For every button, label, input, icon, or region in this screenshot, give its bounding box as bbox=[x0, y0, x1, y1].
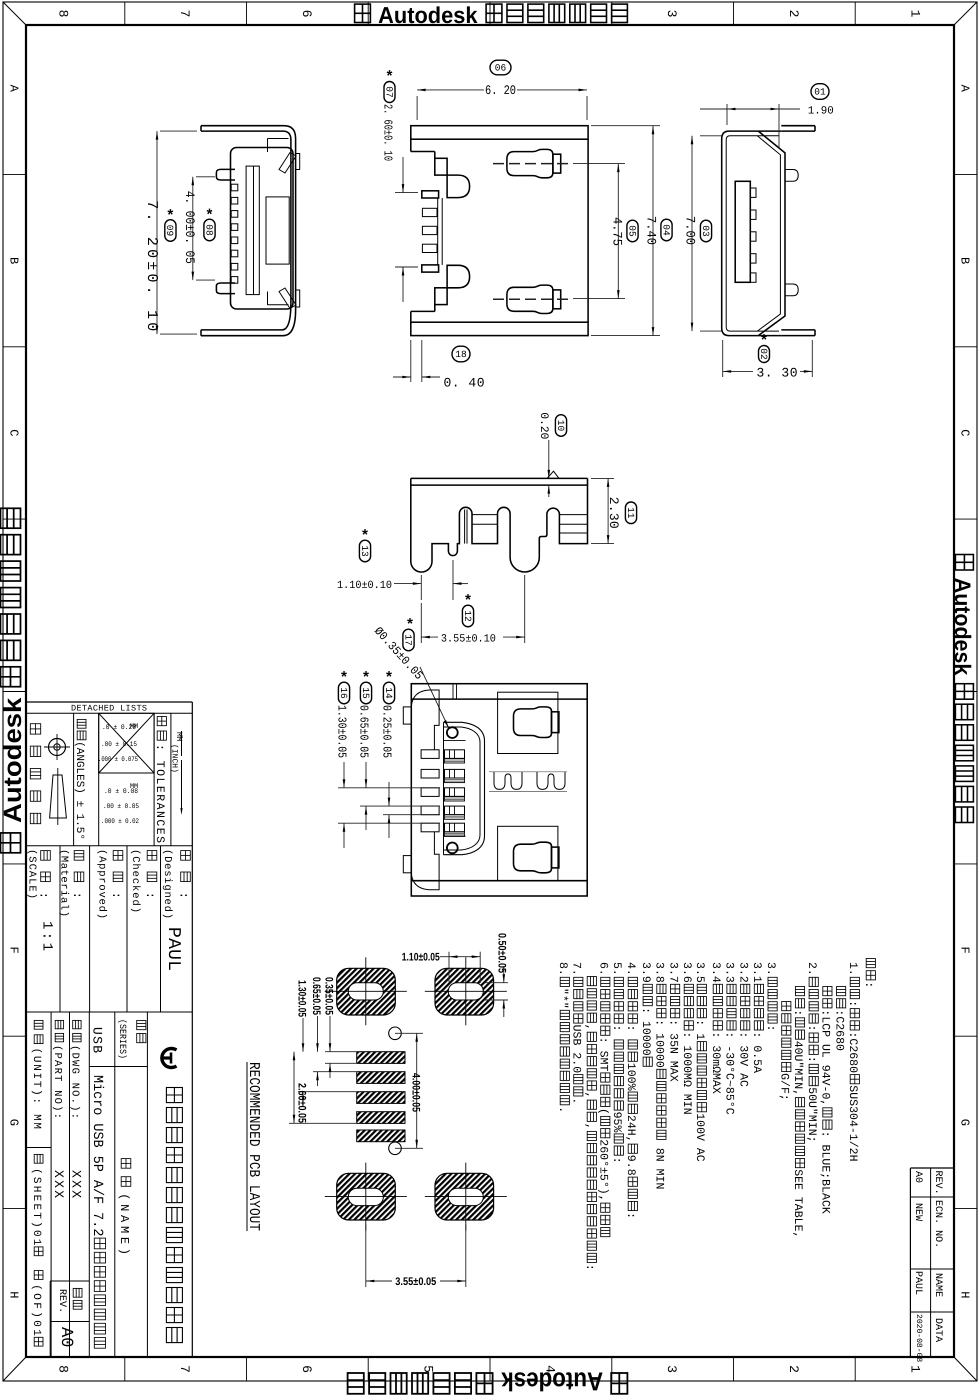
svg-text:XXX: XXX bbox=[51, 1170, 66, 1198]
svg-text:3.55±0.10: 3.55±0.10 bbox=[441, 633, 496, 645]
svg-text:G/F;: G/F; bbox=[778, 1073, 791, 1101]
svg-text:0.50±0.05: 0.50±0.05 bbox=[496, 933, 508, 973]
svg-text:1.90: 1.90 bbox=[808, 106, 834, 118]
svg-text:3.8: 3.8 bbox=[653, 962, 666, 983]
svg-text:ECN. NO.: ECN. NO. bbox=[932, 1200, 943, 1248]
svg-text:F: F bbox=[958, 947, 972, 954]
svg-text:(: ( bbox=[597, 1108, 610, 1115]
svg-text:*: * bbox=[339, 670, 348, 687]
svg-text:15: 15 bbox=[360, 687, 371, 699]
svg-text:A0: A0 bbox=[56, 1327, 75, 1348]
svg-text:*: * bbox=[360, 528, 369, 545]
svg-text:: 0.5A: : 0.5A bbox=[750, 1032, 763, 1074]
svg-text:0.35±0.05: 0.35±0.05 bbox=[323, 977, 335, 1015]
svg-text:(SERIES): (SERIES) bbox=[117, 1019, 128, 1059]
svg-text:Micro USB 5P A/F 7.2: Micro USB 5P A/F 7.2 bbox=[89, 1075, 105, 1236]
svg-text:USB 2.0: USB 2.0 bbox=[570, 1025, 583, 1074]
svg-text::: : bbox=[610, 1025, 623, 1039]
svg-text:(PART NO):: (PART NO): bbox=[51, 1045, 63, 1119]
svg-text::: : bbox=[37, 892, 51, 899]
svg-text:04: 04 bbox=[660, 224, 671, 236]
svg-text::: : bbox=[583, 1264, 596, 1271]
svg-text:3: 3 bbox=[664, 1365, 679, 1373]
svg-text:(INCH): (INCH) bbox=[170, 744, 179, 773]
svg-text:6: 6 bbox=[299, 1365, 314, 1373]
svg-text:Autodesk: Autodesk bbox=[373, 2, 484, 28]
svg-text:B: B bbox=[7, 257, 21, 264]
svg-text:XXX: XXX bbox=[69, 1170, 84, 1198]
svg-text:0.65±0.05: 0.65±0.05 bbox=[357, 705, 371, 758]
svg-text:7. 20±0. 10: 7. 20±0. 10 bbox=[143, 200, 160, 331]
svg-text:: -30°C~85°C: : -30°C~85°C bbox=[723, 1032, 736, 1115]
svg-text::: : bbox=[791, 1009, 804, 1016]
svg-text:08: 08 bbox=[203, 224, 214, 236]
svg-text:2.60±0.05: 2.60±0.05 bbox=[296, 1083, 308, 1123]
svg-text:1.10±0.10: 1.10±0.10 bbox=[337, 580, 392, 592]
svg-text:7.: 7. bbox=[570, 962, 583, 976]
svg-text:8N MIN: 8N MIN bbox=[653, 1141, 666, 1190]
svg-text:1.10±0.05: 1.10±0.05 bbox=[402, 951, 440, 963]
svg-text:,: , bbox=[583, 1024, 596, 1031]
svg-text:06: 06 bbox=[495, 63, 507, 74]
svg-text:09: 09 bbox=[164, 225, 175, 237]
svg-text:3. 30: 3. 30 bbox=[757, 365, 798, 380]
svg-text:: TOLERANCES: : TOLERANCES bbox=[153, 744, 166, 843]
svg-text:40U"MIN,: 40U"MIN, bbox=[791, 1041, 804, 1096]
svg-text::: : bbox=[862, 981, 875, 988]
svg-text:03: 03 bbox=[700, 225, 711, 237]
svg-text:02: 02 bbox=[758, 348, 769, 360]
svg-text:*: * bbox=[384, 670, 393, 687]
svg-text:NAME: NAME bbox=[932, 1273, 943, 1297]
svg-text:6. 20: 6. 20 bbox=[485, 83, 516, 98]
svg-text:Autodesk: Autodesk bbox=[0, 690, 27, 830]
svg-text:13: 13 bbox=[359, 545, 370, 557]
svg-text:.000 ± 0.075: .000 ± 0.075 bbox=[98, 756, 138, 764]
svg-text:2.: 2. bbox=[805, 962, 818, 976]
svg-text:F: F bbox=[7, 947, 21, 954]
svg-text:: SMT: : SMT bbox=[597, 1037, 610, 1072]
svg-text:6: 6 bbox=[299, 10, 314, 18]
svg-text:10: 10 bbox=[555, 420, 566, 432]
svg-text:8: 8 bbox=[55, 10, 70, 18]
svg-text:: 1000MΩ MIN: : 1000MΩ MIN bbox=[680, 1032, 693, 1115]
svg-text:8.: 8. bbox=[556, 962, 569, 976]
svg-text::: : bbox=[177, 892, 191, 899]
svg-text:100%: 100% bbox=[624, 1063, 637, 1091]
svg-text:B: B bbox=[958, 257, 972, 264]
svg-text:100V AC: 100V AC bbox=[693, 1113, 706, 1162]
svg-text:: 35N MAX: : 35N MAX bbox=[666, 1019, 679, 1081]
svg-text:4.00±0.05: 4.00±0.05 bbox=[410, 1073, 422, 1112]
svg-text:DETACHED LISTS: DETACHED LISTS bbox=[71, 704, 147, 714]
svg-text:(Checked): (Checked) bbox=[129, 849, 141, 913]
svg-text:3.1: 3.1 bbox=[750, 962, 763, 983]
svg-text:0.20: 0.20 bbox=[537, 412, 550, 439]
svg-text::: : bbox=[624, 1212, 637, 1219]
svg-text:SUS304-1/2H: SUS304-1/2H bbox=[846, 1085, 859, 1161]
svg-text::: : bbox=[70, 892, 84, 899]
svg-text:C: C bbox=[958, 429, 972, 436]
svg-text:7: 7 bbox=[177, 10, 192, 18]
svg-text:SEE TABLE,: SEE TABLE, bbox=[791, 1169, 804, 1238]
svg-text:(UNIT): MM: (UNIT): MM bbox=[30, 1048, 42, 1129]
svg-text:*: * bbox=[361, 670, 370, 687]
svg-text:1:1: 1:1 bbox=[39, 921, 55, 951]
svg-text::: : bbox=[805, 1025, 818, 1032]
svg-text::LCP UL 94V-0,: :LCP UL 94V-0, bbox=[819, 1009, 832, 1106]
svg-text:3.3: 3.3 bbox=[723, 962, 736, 983]
svg-text:4.: 4. bbox=[624, 962, 637, 976]
svg-text:5.: 5. bbox=[610, 962, 623, 976]
svg-text:*: * bbox=[166, 208, 175, 225]
svg-text:1.30±0.05: 1.30±0.05 bbox=[296, 980, 308, 1017]
svg-text:: 30V AC: : 30V AC bbox=[736, 1032, 749, 1087]
svg-text::: : bbox=[610, 1157, 623, 1164]
svg-text:01: 01 bbox=[814, 87, 826, 98]
svg-text:3.5: 3.5 bbox=[693, 962, 706, 983]
svg-text:11: 11 bbox=[625, 507, 636, 519]
svg-text:A: A bbox=[7, 85, 21, 93]
svg-text:3: 3 bbox=[664, 10, 679, 18]
svg-text:4. 00±0. 05: 4. 00±0. 05 bbox=[182, 191, 197, 264]
svg-text:3.55±0.05: 3.55±0.05 bbox=[395, 1276, 436, 1288]
svg-text:3.9: 3.9 bbox=[639, 962, 652, 983]
svg-text:: 10000: : 10000 bbox=[639, 1007, 652, 1056]
svg-text::: : bbox=[846, 1000, 859, 1007]
svg-text::: : bbox=[109, 892, 123, 899]
svg-text:18: 18 bbox=[455, 349, 467, 360]
svg-text:2020-08-08: 2020-08-08 bbox=[914, 1314, 923, 1362]
svg-text:.0 ± 0.20: .0 ± 0.20 bbox=[102, 724, 136, 732]
svg-text:USB: USB bbox=[90, 1027, 105, 1053]
svg-text:REV.: REV. bbox=[932, 1171, 943, 1195]
svg-text:,: , bbox=[583, 1123, 596, 1130]
svg-text:8: 8 bbox=[55, 1365, 70, 1373]
svg-text:(ANGLES) ± 1.5°: (ANGLES) ± 1.5° bbox=[73, 741, 85, 840]
svg-text:95%: 95% bbox=[610, 1112, 623, 1133]
svg-text:0.65±0.05: 0.65±0.05 bbox=[310, 977, 322, 1015]
svg-text:(Designed): (Designed) bbox=[161, 849, 173, 919]
svg-text:17: 17 bbox=[402, 634, 413, 645]
svg-text:3.6: 3.6 bbox=[680, 962, 693, 983]
svg-text:H: H bbox=[7, 1291, 21, 1298]
svg-text:DATA: DATA bbox=[932, 1318, 943, 1342]
svg-text:2.30: 2.30 bbox=[606, 497, 621, 529]
svg-text:Autodesk: Autodesk bbox=[950, 573, 975, 682]
svg-text::: : bbox=[624, 1025, 637, 1039]
svg-text:H: H bbox=[958, 1291, 972, 1298]
svg-text:1: 1 bbox=[908, 10, 923, 18]
svg-text:NEW: NEW bbox=[912, 1203, 923, 1221]
svg-text:PAUL: PAUL bbox=[163, 927, 183, 971]
svg-text:: BLUE;BLACK: : BLUE;BLACK bbox=[819, 1131, 832, 1214]
svg-text:3.4: 3.4 bbox=[709, 962, 722, 983]
svg-text:A: A bbox=[958, 85, 972, 93]
svg-text:50U"MIN;: 50U"MIN; bbox=[805, 1087, 818, 1142]
svg-text:0.25±0.05: 0.25±0.05 bbox=[380, 705, 394, 758]
svg-text:05: 05 bbox=[626, 225, 637, 237]
svg-text:"*": "*" bbox=[556, 988, 569, 1009]
svg-text:7.40: 7.40 bbox=[644, 216, 659, 245]
svg-text:.: . bbox=[570, 1097, 583, 1104]
svg-text:: 30mΩMAX: : 30mΩMAX bbox=[709, 1032, 722, 1094]
svg-text:07: 07 bbox=[383, 86, 394, 97]
svg-text:24H,: 24H, bbox=[624, 1115, 637, 1143]
svg-text:9.8: 9.8 bbox=[624, 1155, 637, 1176]
svg-text:(Material): (Material) bbox=[58, 849, 70, 917]
svg-text:*: * bbox=[385, 69, 394, 86]
svg-text:2: 2 bbox=[786, 10, 801, 18]
svg-text:7: 7 bbox=[177, 1365, 192, 1373]
svg-text:*: * bbox=[205, 208, 214, 225]
svg-text:Autodesk: Autodesk bbox=[495, 1367, 608, 1396]
svg-text:260°±5°),: 260°±5°), bbox=[597, 1139, 610, 1201]
svg-text::: : bbox=[764, 1025, 777, 1032]
svg-text:A0: A0 bbox=[912, 1171, 923, 1183]
svg-text:12: 12 bbox=[462, 610, 473, 622]
svg-text:3.7: 3.7 bbox=[666, 962, 679, 983]
svg-text:3.2: 3.2 bbox=[736, 962, 749, 983]
svg-text:16: 16 bbox=[338, 687, 349, 699]
svg-text:G: G bbox=[7, 1119, 21, 1126]
svg-text:.: . bbox=[556, 1106, 569, 1113]
svg-text:3.: 3. bbox=[764, 962, 777, 976]
svg-text:6.: 6. bbox=[597, 962, 610, 976]
svg-text:*: * bbox=[463, 593, 472, 610]
svg-text::: : bbox=[143, 892, 157, 899]
svg-text:0. 40: 0. 40 bbox=[444, 376, 485, 391]
svg-text:1: 1 bbox=[908, 1365, 923, 1373]
svg-text:.000 ± 0.02: .000 ± 0.02 bbox=[101, 818, 139, 826]
svg-text:2. 60±0. 10: 2. 60±0. 10 bbox=[381, 104, 395, 161]
svg-text:.00 ± 0.05: .00 ± 0.05 bbox=[103, 803, 139, 811]
svg-text:5: 5 bbox=[421, 1365, 436, 1373]
svg-text:.00 ± 0.15: .00 ± 0.15 bbox=[101, 741, 137, 749]
svg-text:(SHEET)01: (SHEET)01 bbox=[30, 1168, 42, 1246]
svg-text:: 1: : 1 bbox=[693, 1019, 706, 1040]
svg-text:14: 14 bbox=[383, 687, 394, 699]
svg-text:.0 ± 0.08: .0 ± 0.08 bbox=[104, 788, 138, 796]
svg-text::C2680: :C2680 bbox=[846, 1032, 859, 1074]
svg-text:REV.: REV. bbox=[56, 1289, 67, 1313]
svg-text:1.: 1. bbox=[846, 962, 859, 976]
svg-text:(DWG NO.):: (DWG NO.): bbox=[69, 1045, 81, 1119]
svg-text:1.30±0.05: 1.30±0.05 bbox=[335, 705, 349, 758]
svg-text:G: G bbox=[958, 1119, 972, 1126]
svg-text::: : bbox=[805, 1056, 818, 1063]
svg-text:4.75: 4.75 bbox=[610, 217, 625, 246]
svg-text:PAUL: PAUL bbox=[912, 1271, 923, 1295]
svg-text:C: C bbox=[7, 429, 21, 436]
svg-text:,: , bbox=[583, 1092, 596, 1099]
svg-text:(SCALE): (SCALE) bbox=[26, 849, 38, 899]
svg-text::C2680: :C2680 bbox=[832, 1009, 845, 1051]
svg-text:2: 2 bbox=[786, 1365, 801, 1373]
svg-text:7.00: 7.00 bbox=[683, 216, 698, 245]
svg-text:: 10000: : 10000 bbox=[653, 1019, 666, 1068]
svg-text:(Approved): (Approved) bbox=[96, 849, 108, 919]
svg-text:RECOMMENDED PCB LAYOUT: RECOMMENDED PCB LAYOUT bbox=[245, 1062, 262, 1231]
